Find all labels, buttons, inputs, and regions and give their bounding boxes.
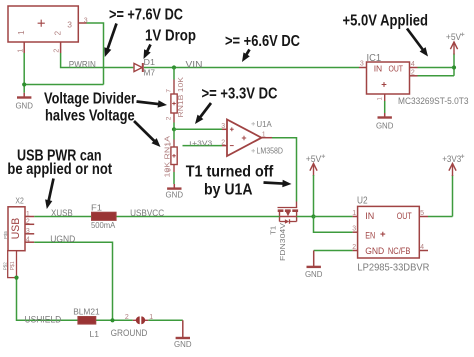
svg-text:T1: T1 [271, 226, 278, 235]
svg-text:L1: L1 [90, 329, 100, 339]
pin 3 IC1 IN [359, 60, 367, 67]
svg-text:2: 2 [352, 244, 356, 251]
svg-text:2: 2 [411, 69, 415, 76]
annotation arrow to RN1A [134, 121, 156, 143]
resistor RN1A 10K [164, 136, 177, 178]
svg-text:1: 1 [352, 210, 356, 217]
junction jack ground node [22, 82, 26, 86]
ground GND below U2 [305, 267, 323, 279]
pin 3 U2 EN [352, 226, 357, 233]
wire USBVCC from fuse to T1 [116, 216, 279, 218]
inductor L1 BLM21 ferrite [73, 306, 100, 338]
pin 1 X2 VBUS [25, 211, 34, 218]
svg-text:4: 4 [26, 236, 30, 243]
supply +3V3 [442, 154, 464, 176]
svg-text:GND: GND [376, 122, 394, 131]
svg-text:MC33269ST-5.0T3: MC33269ST-5.0T3 [398, 96, 469, 106]
svg-text:P$5: P$5 [3, 230, 8, 239]
connector X2 shield box [3, 251, 17, 278]
pin 1 IC1 GND stub [378, 94, 385, 101]
wire +5V node to U2 pin 1 [314, 216, 353, 218]
svg-text:USHIELD: USHIELD [25, 314, 62, 324]
svg-text:LP2985-33DBVR: LP2985-33DBVR [357, 261, 429, 273]
junction +5V IC1 out node [452, 65, 456, 69]
svg-text:USBVCC: USBVCC [130, 208, 164, 218]
svg-text:2: 2 [166, 116, 173, 120]
svg-text:UGND: UGND [50, 234, 75, 244]
wire T1 to +5V node [297, 216, 314, 218]
svg-text:by U1A: by U1A [204, 181, 253, 198]
svg-text:3: 3 [67, 20, 72, 30]
svg-text:2: 2 [54, 49, 61, 53]
svg-text:D1: D1 [144, 57, 156, 67]
wire USHIELD from shield box [17, 278, 133, 321]
wire RN1B to divider node [173, 123, 175, 130]
wire VIN from diode to IC1 [144, 67, 359, 69]
svg-text:XUSB: XUSB [51, 208, 73, 218]
svg-text:NC/FB: NC/FB [388, 246, 411, 256]
pin 4 IC1 OUT [410, 61, 418, 68]
annotation arrow to USB connector [48, 179, 53, 203]
svg-text:+3V3: +3V3 [192, 138, 212, 147]
svg-text:U1A: U1A [257, 119, 272, 129]
connector X2 USB [3, 197, 25, 251]
pin 2 IC1 [410, 69, 418, 76]
ground GND below RN1A [166, 184, 184, 200]
diode D1 M7 [134, 57, 155, 78]
pin 3 U1A [221, 123, 227, 130]
pin 2 X2 D- [25, 219, 34, 226]
svg-text:GND: GND [174, 340, 192, 349]
pin 3 stub of power jack [78, 18, 88, 25]
pin 2 U2 GND [352, 244, 357, 251]
svg-text:>= +6.6V DC: >= +6.6V DC [225, 33, 300, 50]
svg-text:OUT: OUT [397, 211, 412, 221]
svg-text:RN1B 10K: RN1B 10K [178, 77, 185, 118]
svg-text:P$1: P$1 [10, 261, 16, 270]
wire jack pin3 to ground rail [87, 23, 104, 85]
svg-text:IN: IN [374, 64, 383, 74]
annotation arrow to RN1B [137, 102, 161, 105]
ground-tie GROUND element [111, 314, 154, 338]
supply +5V top right [446, 32, 465, 55]
svg-text:GND: GND [15, 101, 33, 110]
wire +5V node down to U2 EN pin 3 [314, 217, 353, 233]
svg-text:GND: GND [166, 191, 184, 200]
svg-text:P$2: P$2 [3, 262, 8, 271]
svg-text:5: 5 [420, 210, 424, 217]
svg-text:be applied or not: be applied or not [7, 161, 112, 178]
op-amp U1A LM358D [227, 119, 283, 156]
svg-text:1: 1 [17, 49, 24, 53]
svg-text:2: 2 [53, 30, 62, 35]
wire jack pin1 down to ground [23, 53, 25, 93]
annotation arrow to VIN right [245, 50, 249, 57]
svg-text:1: 1 [26, 211, 30, 218]
svg-text:3: 3 [352, 226, 356, 233]
wire ground rail horizontal [24, 84, 103, 86]
junction +5V node [311, 214, 315, 218]
svg-text:3: 3 [221, 123, 225, 130]
fuse F1 500mA [91, 202, 116, 230]
wire +5V symbol down to node [313, 175, 315, 217]
annotation arrow to T1 gate wire [264, 183, 286, 184]
svg-text:8: 8 [166, 168, 173, 172]
svg-text:EN: EN [365, 230, 375, 240]
svg-text:VIN: VIN [186, 60, 203, 70]
regulator IC1 MC33269ST-5.0T3 [367, 53, 469, 106]
node +3V3 label [190, 138, 212, 147]
svg-text:2: 2 [221, 139, 225, 146]
svg-text:+3V3: +3V3 [442, 154, 461, 164]
svg-text:>= +3.3V DC: >= +3.3V DC [202, 85, 278, 102]
pin 1 U1A output [262, 131, 273, 138]
pin 2 U1A [221, 139, 227, 146]
svg-text:+5V: +5V [446, 32, 461, 42]
ground GND below IC1 [376, 113, 394, 131]
annotation arrow to VIN wire [107, 24, 117, 52]
pin 4 X2 GND [25, 236, 34, 243]
resistor RN1B 10K [166, 77, 185, 123]
svg-text:2: 2 [26, 219, 30, 226]
svg-text:500mA: 500mA [91, 220, 116, 230]
svg-text:halves Voltage: halves Voltage [45, 108, 135, 125]
wire +3V3 net to U1A pin 2 [183, 145, 223, 147]
wire GROUND to gnd symbol [148, 319, 183, 321]
junction UGND USHIELD node [110, 318, 114, 322]
wire RN1A to ground [173, 172, 175, 184]
svg-text:3: 3 [26, 228, 30, 235]
pin 3 X2 D+ [25, 228, 34, 235]
svg-text:T1 turned off: T1 turned off [186, 163, 274, 180]
junction divider midpoint [172, 127, 176, 131]
wire IC1 OUT to +5V [418, 67, 455, 69]
svg-text:IC1: IC1 [367, 53, 382, 64]
svg-text:1V Drop: 1V Drop [145, 27, 196, 44]
annotation arrow to diode D1 [146, 45, 150, 54]
svg-text:+5V: +5V [306, 154, 322, 164]
wire divider node to U1A pin 3 [174, 128, 222, 130]
connector PWRIN power jack [8, 6, 78, 42]
svg-text:1: 1 [262, 131, 266, 138]
junction shield pins [14, 276, 18, 280]
wire U2 OUT to +3V3 [428, 216, 453, 218]
regulator U2 LP2985-33DBVR [357, 196, 430, 274]
svg-text:4: 4 [420, 244, 424, 251]
svg-text:+5.0V Applied: +5.0V Applied [343, 12, 429, 29]
svg-text:LM358D: LM358D [257, 146, 284, 156]
svg-text:1: 1 [17, 30, 26, 35]
svg-text:GND: GND [365, 246, 384, 256]
wire IC1 pin2 to +5V rail [418, 75, 455, 77]
wire VIN down to RN1B [173, 68, 175, 80]
wire U1A output to T1 gate [272, 138, 297, 202]
svg-text:GND: GND [305, 270, 323, 279]
wire UGND pin4 [34, 242, 112, 320]
svg-text:FDN304V: FDN304V [280, 223, 287, 261]
pin 1 stub of power jack [17, 42, 24, 53]
wire divider node down to RN1A [173, 129, 175, 139]
ground GND below power jack [15, 93, 33, 111]
junction VIN divider tap [172, 65, 176, 69]
annotation arrow to divider wire [199, 103, 211, 119]
svg-text:M7: M7 [144, 68, 156, 78]
svg-text:F1: F1 [91, 202, 102, 212]
svg-text:USB: USB [10, 218, 22, 240]
svg-text:OUT: OUT [389, 64, 404, 74]
pin 5 U2 OUT [419, 210, 428, 217]
wire jack pin2 to PWRIN net [61, 53, 134, 68]
svg-text:7: 7 [166, 89, 173, 93]
wire XUSB pin1 to fuse [34, 216, 91, 218]
svg-text:U2: U2 [357, 196, 368, 207]
svg-text:4: 4 [411, 61, 415, 68]
svg-text:BLM21: BLM21 [73, 306, 100, 316]
pin 2 stub of power jack [54, 42, 61, 53]
svg-text:Voltage Divider: Voltage Divider [44, 90, 136, 107]
pin 4 U2 NC/FB [419, 244, 428, 251]
svg-text:>= +7.6V DC: >= +7.6V DC [109, 7, 183, 24]
svg-text:GROUND: GROUND [111, 328, 148, 338]
wire IC1 gnd [384, 101, 386, 113]
svg-text:PWRIN: PWRIN [69, 60, 96, 70]
svg-text:3: 3 [360, 60, 364, 67]
pin 1 U2 IN [352, 210, 357, 217]
svg-text:IN: IN [365, 211, 374, 221]
wire +5V vertical [453, 54, 455, 76]
ground GND bottom [174, 338, 192, 349]
wire U2 GND pin to ground [314, 250, 353, 252]
annotation arrow to IC1 output [407, 29, 424, 52]
transistor T1 FDN304V p-mosfet [271, 202, 299, 262]
svg-text:2: 2 [125, 314, 129, 321]
svg-text:X2: X2 [15, 197, 24, 206]
supply +5V near U2 [306, 154, 325, 176]
